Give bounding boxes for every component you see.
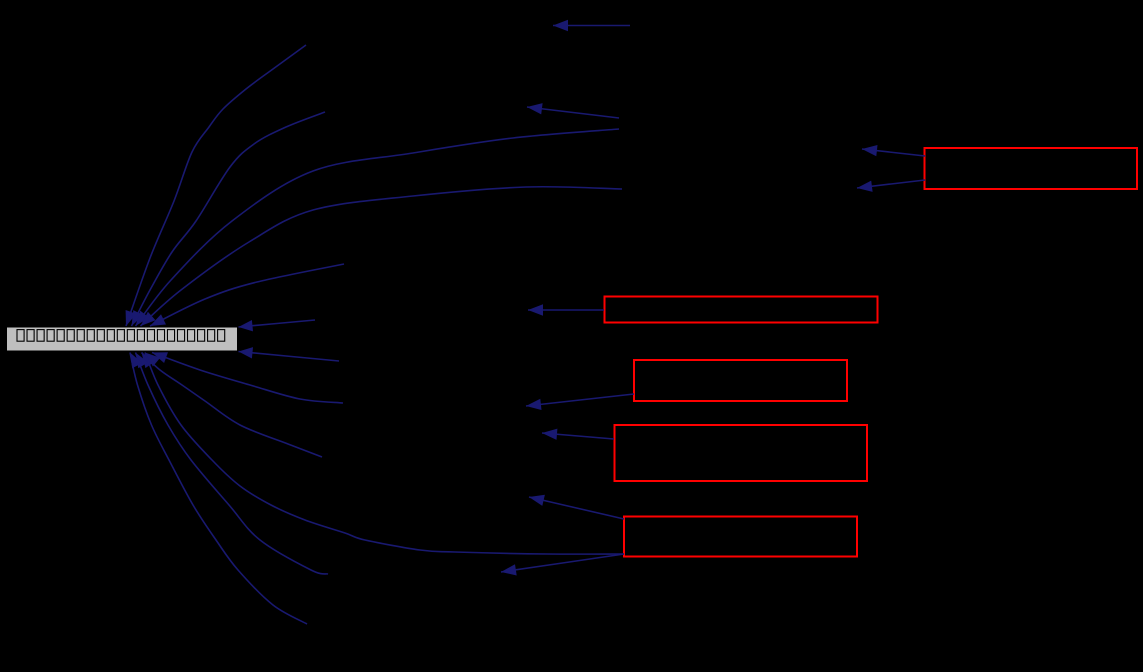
- edge P4: [130, 353, 307, 625]
- edge B arrowhead: [132, 310, 144, 326]
- edge P4 arrowhead: [130, 353, 142, 369]
- edge R2 arrowhead: [528, 304, 543, 315]
- edge R3 arrowhead: [526, 399, 542, 410]
- edge E: [150, 264, 344, 326]
- edge R4 arrowhead: [542, 429, 557, 440]
- edge R5a arrowhead: [529, 495, 545, 506]
- edge P1 arrowhead: [152, 352, 168, 363]
- edge E arrowhead: [150, 314, 166, 326]
- edge R5b arrowhead: [501, 564, 517, 575]
- edge B: [132, 112, 326, 326]
- edge R3: [526, 394, 634, 406]
- edge P3 arrowhead: [136, 353, 149, 369]
- edge R4: [542, 433, 614, 439]
- edge H arrowhead: [553, 20, 568, 31]
- edge G arrowhead: [527, 103, 543, 114]
- node N4 (red): [615, 425, 868, 481]
- edge D: [141, 187, 623, 326]
- edge P2: [142, 353, 323, 458]
- label main: 21 missing-glyph tofu boxes: [17, 330, 225, 342]
- edge F arrowhead: [239, 320, 254, 331]
- edge R1a: [862, 149, 925, 156]
- node N1 (red): [925, 148, 1138, 189]
- edge R5a: [529, 497, 624, 519]
- edge P5: [145, 353, 624, 555]
- edge R2: [528, 309, 604, 311]
- edge P1: [152, 353, 343, 404]
- edge R5b: [501, 554, 624, 572]
- edge R1a arrowhead: [862, 145, 878, 156]
- edge R1b arrowhead: [857, 181, 873, 192]
- node main (gray focus box): [7, 327, 238, 351]
- node N5 (red): [624, 517, 857, 557]
- edge C arrowhead: [136, 311, 150, 326]
- edge P2 arrowhead: [142, 353, 155, 369]
- edge C: [136, 129, 620, 326]
- edge A: [126, 45, 306, 326]
- edge F2 arrowhead: [239, 347, 254, 358]
- edge H: [553, 25, 630, 27]
- node N2 (red): [605, 297, 878, 323]
- edge P3: [136, 353, 329, 575]
- edge F2: [239, 352, 340, 362]
- edge R1b: [857, 180, 925, 188]
- edge D arrowhead: [141, 312, 156, 326]
- edge A arrowhead: [126, 310, 137, 326]
- edge G: [527, 107, 619, 118]
- edge P5 arrowhead: [145, 353, 160, 367]
- node N3 (red): [634, 360, 847, 401]
- edge F: [239, 320, 316, 327]
